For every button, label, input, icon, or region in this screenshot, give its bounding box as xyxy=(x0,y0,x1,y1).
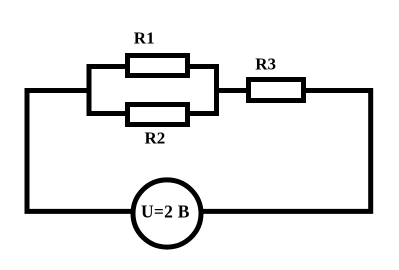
node A: parallel left bar xyxy=(87,64,92,116)
wire top branch right xyxy=(187,64,218,69)
svg-text:R3: R3 xyxy=(255,54,276,73)
svg-text:R2: R2 xyxy=(145,128,166,147)
resistor R1 xyxy=(128,56,188,76)
wire outer loop: left vertical, bottom, right vertical with top stubs xyxy=(27,91,371,212)
wire bottom branch left xyxy=(87,111,128,116)
wire top branch left xyxy=(87,64,128,69)
node B: parallel right bar xyxy=(214,64,219,116)
source U1 circle xyxy=(133,180,201,247)
svg-text:U=2 B: U=2 B xyxy=(141,202,190,222)
resistor R3 xyxy=(249,80,304,101)
wire from node B to R3 xyxy=(217,88,251,93)
wire bottom branch right xyxy=(187,111,218,116)
resistor R2 xyxy=(128,105,188,125)
svg-text:R1: R1 xyxy=(134,28,155,47)
